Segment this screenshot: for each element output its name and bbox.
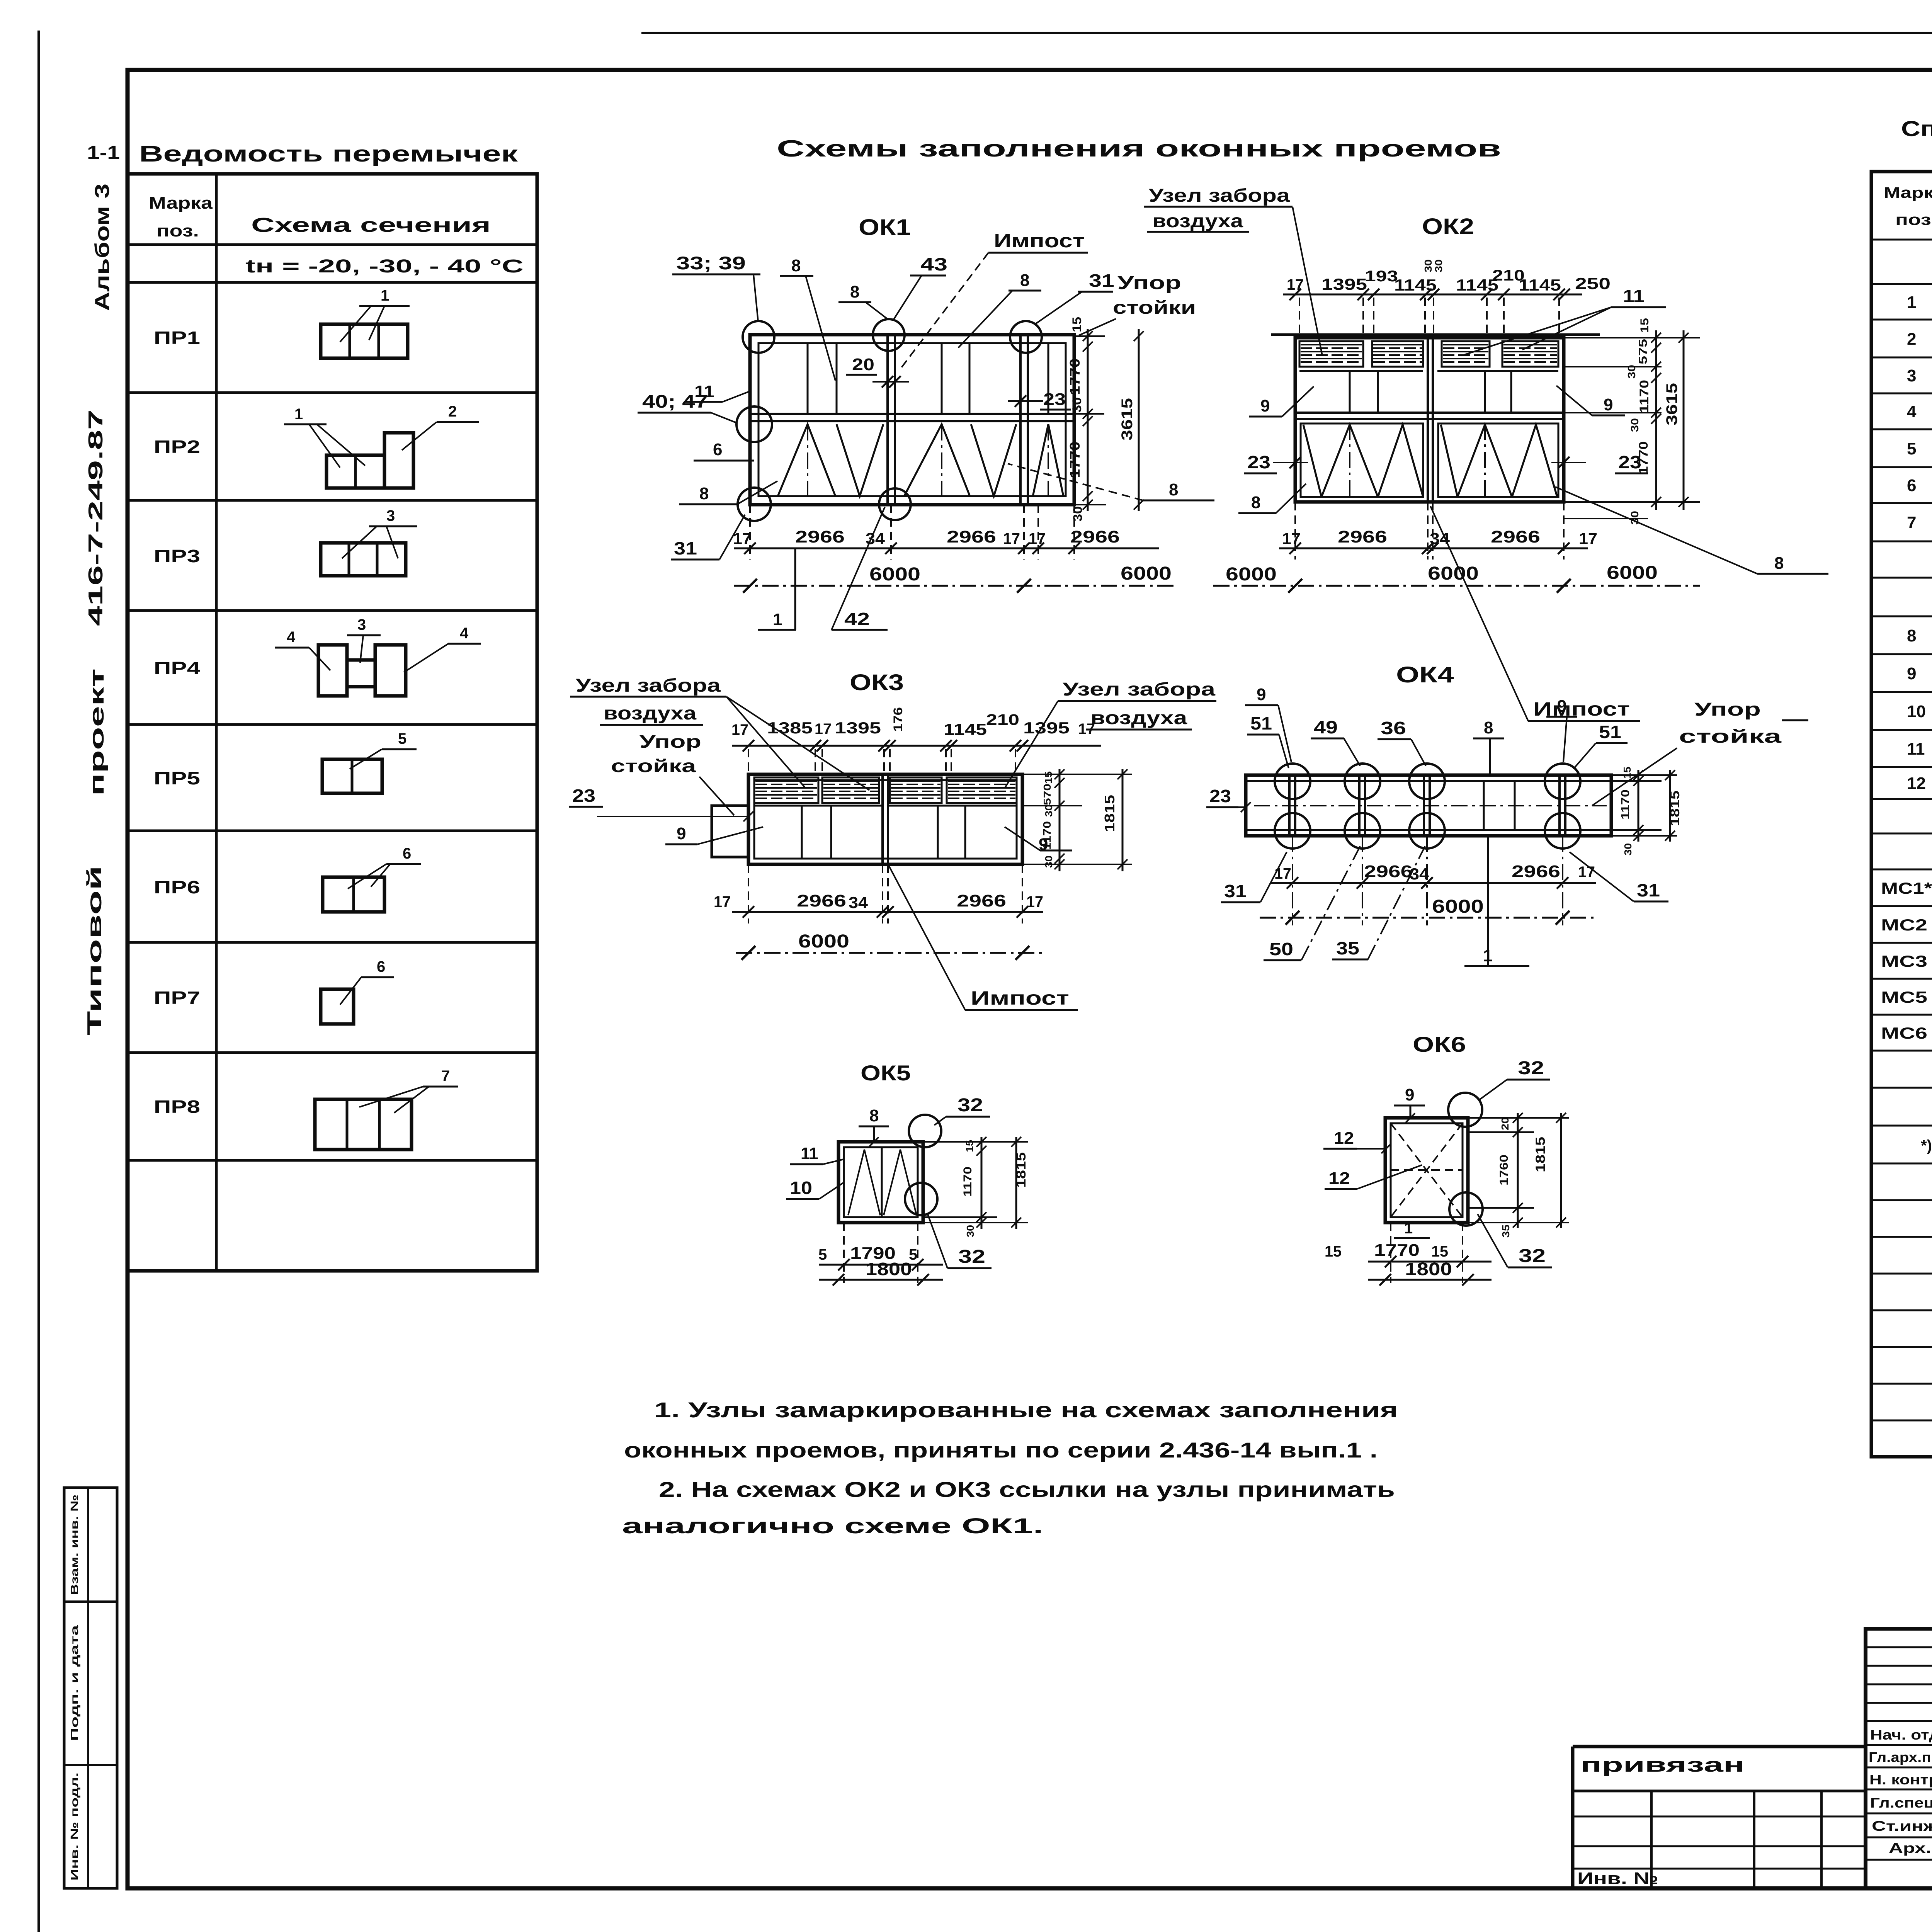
OK5 window outer frame bbox=[838, 1142, 923, 1223]
svg-text:Арх.: Арх. bbox=[1889, 1840, 1931, 1856]
OK6 node circle top bbox=[1448, 1093, 1482, 1127]
OK5 casement symbols bbox=[848, 1150, 880, 1215]
svg-text:30: 30 bbox=[1043, 855, 1054, 868]
OK5 right extension lines bbox=[923, 1141, 1028, 1143]
OK1 lower pane axis lines bbox=[807, 424, 808, 496]
svg-text:51: 51 bbox=[1599, 722, 1621, 742]
title block staff row lines bbox=[1866, 1720, 1932, 1722]
svg-text:17: 17 bbox=[1274, 865, 1291, 882]
margin stamp boxes bbox=[64, 1488, 117, 1888]
OK2 top dim extension lines bbox=[1299, 298, 1300, 335]
PR5 section scheme bbox=[322, 759, 382, 793]
svg-text:МС6: МС6 bbox=[1881, 1024, 1927, 1042]
svg-text:49: 49 bbox=[1314, 717, 1338, 737]
OK2 top dim line bbox=[1283, 294, 1582, 296]
OK5 right dim line A bbox=[981, 1137, 983, 1229]
OK2 rail under grills bbox=[1299, 370, 1423, 372]
svg-text:1: 1 bbox=[1483, 946, 1492, 965]
svg-text:МС1*): МС1*) bbox=[1881, 879, 1932, 897]
svg-text:8: 8 bbox=[1020, 271, 1029, 290]
svg-text:поз.: поз. bbox=[156, 221, 199, 240]
svg-text:1170: 1170 bbox=[1041, 821, 1053, 850]
svg-text:30: 30 bbox=[1070, 397, 1084, 413]
svg-text:6000: 6000 bbox=[1226, 564, 1277, 585]
OK2 lower casement symbols panel2 bbox=[1441, 425, 1458, 497]
svg-text:стойки: стойки bbox=[1113, 298, 1196, 318]
OK3 air intake hatched panel 4 bbox=[947, 777, 1017, 803]
svg-text:1170: 1170 bbox=[1619, 789, 1632, 820]
svg-text:30: 30 bbox=[1629, 418, 1641, 432]
svg-text:МС3: МС3 bbox=[1881, 952, 1927, 970]
svg-text:2966: 2966 bbox=[1364, 862, 1413, 881]
OK4 position ref 1 bbox=[1487, 836, 1489, 966]
svg-text:воздуха: воздуха bbox=[604, 703, 696, 724]
OK2 window outer frame bbox=[1295, 338, 1564, 502]
OK4 right dim line B 1815 bbox=[1669, 770, 1671, 842]
svg-text:3615: 3615 bbox=[1119, 398, 1136, 440]
svg-text:250: 250 bbox=[1575, 274, 1611, 293]
OK3 rail under grills bbox=[754, 805, 883, 807]
svg-text:17: 17 bbox=[714, 893, 731, 911]
svg-text:1: 1 bbox=[381, 287, 389, 304]
svg-text:32: 32 bbox=[1518, 1058, 1544, 1078]
svg-text:3: 3 bbox=[1907, 366, 1916, 385]
OK2 lower casement symbols panel1 bbox=[1303, 425, 1321, 497]
OK1 node circle top-mid bbox=[873, 319, 905, 351]
svg-text:2966: 2966 bbox=[947, 527, 996, 546]
OK1 upper pane verticals bbox=[807, 343, 809, 414]
svg-text:1815: 1815 bbox=[1014, 1152, 1029, 1188]
svg-text:Гл.спец.: Гл.спец. bbox=[1870, 1795, 1932, 1811]
svg-text:210: 210 bbox=[986, 711, 1019, 728]
svg-text:1170: 1170 bbox=[961, 1167, 974, 1197]
svg-text:ОК4: ОК4 bbox=[1396, 662, 1454, 687]
OK5 right dim line B 1815 bbox=[1015, 1137, 1017, 1229]
svg-text:ОК3: ОК3 bbox=[850, 670, 904, 695]
OK2 mid pane verticals bbox=[1349, 371, 1351, 413]
OK1 node circle mid-left bbox=[736, 406, 772, 442]
svg-text:Импост: Импост bbox=[971, 987, 1069, 1009]
OK3 air intake hatched panel 1 bbox=[754, 777, 818, 803]
svg-text:МС2: МС2 bbox=[1881, 916, 1927, 934]
OK3 top extension lines bbox=[748, 749, 749, 774]
OK1 bottom dim line bbox=[734, 548, 1159, 549]
svg-text:30: 30 bbox=[1433, 259, 1444, 272]
svg-text:51: 51 bbox=[1250, 713, 1272, 733]
svg-text:6: 6 bbox=[713, 440, 722, 459]
OK1 node circle bottom-left bbox=[738, 488, 771, 521]
svg-text:Упор: Упор bbox=[1694, 699, 1761, 720]
OK2 lintel line bbox=[1271, 333, 1600, 336]
svg-text:17: 17 bbox=[1003, 529, 1020, 548]
svg-text:15: 15 bbox=[1070, 317, 1084, 332]
svg-text:176: 176 bbox=[891, 707, 905, 732]
OK2 right extension lines bbox=[1564, 337, 1700, 338]
svg-text:Схема сечения: Схема сечения bbox=[251, 214, 491, 236]
svg-text:Типовой: Типовой bbox=[83, 866, 106, 1036]
svg-text:7: 7 bbox=[1907, 513, 1916, 532]
svg-text:12: 12 bbox=[1907, 774, 1926, 793]
OK4 grid dim line 6000 bbox=[1260, 917, 1596, 919]
OK6 bottom extension lines bbox=[1390, 1223, 1391, 1283]
svg-text:2: 2 bbox=[1907, 330, 1916, 349]
svg-text:6000: 6000 bbox=[1428, 563, 1479, 584]
svg-text:2966: 2966 bbox=[1512, 862, 1560, 881]
svg-text:1770: 1770 bbox=[1374, 1241, 1420, 1260]
OK3 lower pane verticals bbox=[801, 806, 803, 859]
OK2 inner frame lower bbox=[1301, 423, 1423, 497]
svg-text:8: 8 bbox=[850, 282, 859, 301]
OK3 bottom extension lines bbox=[748, 864, 749, 923]
svg-text:12: 12 bbox=[1328, 1169, 1350, 1188]
svg-text:ПР1: ПР1 bbox=[154, 328, 200, 348]
svg-text:ПР3: ПР3 bbox=[154, 546, 200, 566]
OK4 right dim line A bbox=[1638, 770, 1639, 842]
svg-text:3615: 3615 bbox=[1663, 383, 1680, 425]
svg-text:32: 32 bbox=[958, 1247, 985, 1267]
title block outer bbox=[1866, 1629, 1932, 1888]
svg-text:23: 23 bbox=[572, 786, 595, 806]
OK4 strip window inner lines bbox=[1246, 780, 1611, 782]
svg-text:ПР2: ПР2 bbox=[154, 437, 200, 457]
svg-text:1-1: 1-1 bbox=[87, 142, 120, 163]
PR4 section scheme bbox=[318, 645, 347, 696]
svg-text:17: 17 bbox=[815, 721, 832, 738]
OK1 lower casement symbols panel1 bbox=[778, 424, 835, 496]
svg-text:23: 23 bbox=[1209, 786, 1231, 806]
svg-text:32: 32 bbox=[1519, 1246, 1546, 1266]
svg-text:8: 8 bbox=[791, 256, 801, 275]
svg-text:6000: 6000 bbox=[1121, 563, 1172, 584]
svg-text:ПР4: ПР4 bbox=[154, 658, 201, 678]
svg-text:воздуха: воздуха bbox=[1090, 708, 1187, 728]
OK4 strip window outer bbox=[1246, 775, 1611, 836]
svg-text:1395: 1395 bbox=[835, 719, 881, 737]
svg-text:15: 15 bbox=[1431, 1243, 1448, 1260]
OK2 air intake hatched panel 4 bbox=[1502, 341, 1558, 367]
OK3 window outer frame bbox=[748, 774, 1022, 864]
svg-text:привязан: привязан bbox=[1580, 1754, 1745, 1776]
svg-text:1770: 1770 bbox=[1636, 441, 1650, 474]
svg-text:6: 6 bbox=[403, 845, 411, 862]
svg-text:6000: 6000 bbox=[1432, 896, 1484, 917]
svg-text:Инв. №: Инв. № bbox=[1577, 1869, 1658, 1888]
svg-text:1385: 1385 bbox=[767, 719, 813, 737]
svg-text:416-7-249.87: 416-7-249.87 bbox=[85, 410, 107, 626]
svg-text:1800: 1800 bbox=[866, 1259, 912, 1279]
svg-text:43: 43 bbox=[920, 254, 947, 274]
svg-text:1: 1 bbox=[1907, 293, 1916, 312]
svg-text:ПР6: ПР6 bbox=[154, 877, 200, 897]
OK4 window center axis bbox=[1254, 805, 1607, 806]
svg-text:Взам. инв. №: Взам. инв. № bbox=[68, 1495, 80, 1595]
svg-text:Марка,: Марка, bbox=[1884, 184, 1932, 201]
svg-text:аналогично схеме ОК1.: аналогично схеме ОК1. bbox=[622, 1514, 1043, 1538]
svg-text:11: 11 bbox=[801, 1144, 818, 1163]
svg-text:32: 32 bbox=[957, 1095, 983, 1116]
OK6 node circle bottom bbox=[1449, 1192, 1483, 1226]
svg-text:1770: 1770 bbox=[1067, 359, 1083, 395]
svg-text:17: 17 bbox=[1078, 721, 1095, 738]
OK2 air intake hatched panel 1 bbox=[1299, 341, 1363, 367]
svg-text:2966: 2966 bbox=[797, 891, 846, 910]
OK1 right extension lines bbox=[1074, 335, 1105, 337]
svg-text:2. На схемах ОК2 и ОК3 с: 2. На схемах ОК2 и ОК3 ссылки на узлы пр… bbox=[659, 1477, 1395, 1502]
OK6 pivot symbol diagonals bbox=[1391, 1123, 1463, 1217]
OK6 right extension lines bbox=[1468, 1117, 1569, 1119]
svg-text:Ст.инж: Ст.инж bbox=[1872, 1818, 1932, 1834]
svg-text:1760: 1760 bbox=[1498, 1155, 1510, 1185]
OK5 bottom extension lines bbox=[843, 1223, 845, 1283]
svg-text:31: 31 bbox=[674, 538, 697, 558]
svg-text:Импост: Импост bbox=[994, 230, 1085, 252]
svg-text:2966: 2966 bbox=[795, 527, 845, 546]
svg-text:3: 3 bbox=[386, 507, 395, 524]
OK3 grid dim line 6000 bbox=[736, 952, 1043, 954]
OK3 right dim line B 1815 bbox=[1122, 769, 1124, 871]
svg-text:Узел забора: Узел забора bbox=[576, 675, 721, 696]
svg-text:7: 7 bbox=[441, 1068, 450, 1085]
svg-text:30: 30 bbox=[1422, 259, 1434, 272]
svg-text:8: 8 bbox=[1169, 480, 1178, 499]
svg-text:30: 30 bbox=[1629, 511, 1641, 525]
OK3 right extension lines bbox=[1022, 774, 1132, 775]
svg-text:8: 8 bbox=[1484, 718, 1493, 737]
svg-text:ОК1: ОК1 bbox=[859, 215, 911, 240]
PR8 section scheme bbox=[315, 1099, 412, 1150]
svg-text:10: 10 bbox=[790, 1178, 812, 1198]
svg-text:8: 8 bbox=[1907, 626, 1916, 645]
svg-text:МС5: МС5 bbox=[1881, 988, 1927, 1006]
svg-text:9: 9 bbox=[1260, 396, 1270, 415]
svg-text:6000: 6000 bbox=[798, 931, 849, 952]
OK4 bottom dim line bbox=[1271, 882, 1596, 884]
svg-text:31: 31 bbox=[1637, 880, 1660, 900]
svg-text:23: 23 bbox=[1043, 390, 1066, 409]
OK3 window inner frame bbox=[754, 780, 1017, 859]
svg-text:17: 17 bbox=[731, 721, 748, 738]
svg-text:ОК6: ОК6 bbox=[1413, 1032, 1466, 1056]
svg-text:30: 30 bbox=[1622, 843, 1634, 855]
OK5 pane divider bbox=[881, 1147, 883, 1217]
svg-text:15: 15 bbox=[1621, 767, 1633, 779]
OK5 bottom dim line bbox=[819, 1264, 943, 1266]
PR2 section scheme bbox=[327, 455, 384, 488]
OK1 mullion 1 bbox=[886, 335, 889, 505]
svg-text:20: 20 bbox=[852, 355, 874, 374]
svg-text:23: 23 bbox=[1247, 452, 1270, 472]
PR1 section scheme bbox=[321, 324, 408, 358]
svg-text:1815: 1815 bbox=[1102, 795, 1117, 832]
svg-text:9: 9 bbox=[677, 824, 686, 843]
svg-text:1. Узлы замаркированные на: 1. Узлы замаркированные на схемах заполн… bbox=[654, 1398, 1398, 1422]
svg-text:Гл.арх.пр: Гл.арх.пр bbox=[1869, 1749, 1932, 1765]
svg-text:1815: 1815 bbox=[1668, 791, 1682, 826]
svg-text:Упор: Упор bbox=[639, 731, 701, 752]
PR3 section scheme bbox=[321, 543, 406, 576]
svg-text:1395: 1395 bbox=[1321, 275, 1367, 293]
svg-text:36: 36 bbox=[1381, 718, 1406, 738]
OK4 node circles bbox=[1275, 764, 1310, 799]
OK2 bottom dim line bbox=[1279, 548, 1588, 549]
svg-text:6: 6 bbox=[1907, 476, 1916, 495]
OK2 grid axis dim line bbox=[1213, 585, 1700, 587]
svg-text:34: 34 bbox=[1410, 865, 1429, 883]
svg-text:3: 3 bbox=[357, 616, 366, 633]
svg-text:Марка: Марка bbox=[149, 194, 213, 213]
OK2 right dim line A bbox=[1655, 330, 1657, 510]
svg-text:30: 30 bbox=[1043, 804, 1054, 817]
svg-text:9: 9 bbox=[1907, 664, 1916, 683]
OK6 bottom dim line bbox=[1368, 1261, 1492, 1263]
OK6 right dim line A bbox=[1517, 1113, 1519, 1228]
svg-text:15: 15 bbox=[1325, 1243, 1342, 1260]
OK3 bottom dim line bbox=[732, 911, 1043, 913]
OK2 right dim line B 3615 bbox=[1683, 330, 1685, 510]
OK1 position ref 1 bbox=[794, 548, 796, 630]
svg-text:6000: 6000 bbox=[1607, 563, 1658, 583]
OK3 top dim line bbox=[732, 745, 1101, 747]
OK6 window inner frame bbox=[1391, 1123, 1463, 1217]
paper edge top line bbox=[641, 32, 1932, 34]
privyazan grid bbox=[1573, 1790, 1866, 1793]
OK2 mid rail bbox=[1295, 412, 1564, 414]
OK6 window outer frame bbox=[1385, 1118, 1468, 1223]
OK1 right dim line B 3615 bbox=[1138, 329, 1140, 511]
svg-text:Схемы заполнения оконных пр: Схемы заполнения оконных проемов bbox=[777, 136, 1501, 162]
OK1 node circle top-left bbox=[743, 321, 774, 353]
OK1 grid axis dim line bbox=[734, 585, 1175, 587]
svg-text:15: 15 bbox=[1043, 771, 1054, 784]
svg-text:воздуха: воздуха bbox=[1152, 211, 1243, 231]
svg-text:1395: 1395 bbox=[1023, 719, 1070, 737]
svg-text:9: 9 bbox=[1604, 395, 1613, 414]
OK5 window inner frame bbox=[844, 1147, 918, 1217]
svg-text:15: 15 bbox=[1638, 318, 1651, 333]
OK2 air intake hatched panel 3 bbox=[1442, 341, 1490, 367]
svg-text:31: 31 bbox=[1089, 270, 1114, 291]
OK6 right dim line B 1815 bbox=[1560, 1113, 1562, 1228]
OK1 mid rail bbox=[750, 413, 1074, 415]
svg-text:1: 1 bbox=[294, 406, 303, 423]
svg-text:*): *) bbox=[1921, 1137, 1932, 1154]
OK4 mullions bbox=[1288, 775, 1291, 836]
OK4 bottom extension lines bbox=[1292, 836, 1293, 925]
lintel table grid bbox=[128, 174, 537, 1271]
svg-text:Узел забора: Узел забора bbox=[1063, 679, 1215, 700]
OK2 bottom extension lines bbox=[1294, 502, 1296, 560]
OK1 right dim line A bbox=[1087, 329, 1089, 511]
OK1 position ref 42 bbox=[832, 629, 888, 631]
svg-text:8: 8 bbox=[1774, 554, 1784, 573]
svg-text:Инв. № подл.: Инв. № подл. bbox=[68, 1772, 80, 1881]
svg-text:50: 50 bbox=[1269, 939, 1293, 959]
svg-text:31: 31 bbox=[1224, 881, 1247, 901]
svg-text:34: 34 bbox=[1430, 529, 1450, 548]
svg-text:40; 47: 40; 47 bbox=[642, 391, 708, 412]
svg-text:33; 39: 33; 39 bbox=[676, 253, 746, 273]
svg-text:9: 9 bbox=[1257, 685, 1266, 704]
svg-text:9: 9 bbox=[1405, 1085, 1414, 1104]
svg-text:193: 193 bbox=[1365, 268, 1398, 285]
svg-text:Ведомость перемычек: Ведомость перемычек bbox=[139, 141, 518, 167]
svg-text:4: 4 bbox=[460, 625, 469, 642]
spec table grid bbox=[1871, 172, 1932, 1457]
OK1 bottom extension lines bbox=[749, 505, 751, 560]
svg-text:Н. контр: Н. контр bbox=[1869, 1772, 1932, 1787]
svg-text:11: 11 bbox=[1907, 740, 1925, 759]
svg-text:1815: 1815 bbox=[1533, 1137, 1548, 1172]
svg-text:8: 8 bbox=[699, 484, 709, 503]
svg-text:35: 35 bbox=[1500, 1225, 1512, 1238]
svg-text:42: 42 bbox=[844, 609, 870, 629]
svg-text:1770: 1770 bbox=[1067, 442, 1083, 478]
svg-text:17: 17 bbox=[1026, 893, 1043, 911]
svg-text:поз.: поз. bbox=[1895, 211, 1932, 228]
PR6 section scheme bbox=[323, 877, 384, 912]
svg-text:15: 15 bbox=[964, 1140, 975, 1152]
svg-text:оконных проемов, приняты по: оконных проемов, приняты по серии 2.436-… bbox=[624, 1438, 1378, 1462]
OK5 node circle top bbox=[909, 1115, 941, 1147]
OK1 node circle top-right bbox=[1010, 321, 1042, 353]
OK3 upor stoika box bbox=[712, 806, 748, 857]
svg-text:4: 4 bbox=[287, 629, 296, 646]
svg-text:17: 17 bbox=[733, 529, 752, 548]
svg-text:30: 30 bbox=[1626, 365, 1638, 379]
svg-text:17: 17 bbox=[1578, 864, 1595, 881]
svg-text:4: 4 bbox=[1907, 402, 1917, 421]
OK2 air intake hatched panel 2 bbox=[1372, 341, 1423, 367]
svg-text:Упор: Упор bbox=[1117, 273, 1181, 293]
svg-text:tн = -20, -30, - 40 °С: tн = -20, -30, - 40 °С bbox=[245, 256, 524, 277]
svg-text:ПР5: ПР5 bbox=[154, 768, 200, 788]
svg-text:6: 6 bbox=[377, 958, 385, 975]
svg-text:575: 575 bbox=[1637, 339, 1650, 364]
svg-text:1145: 1145 bbox=[1519, 276, 1561, 294]
svg-text:Подп. и дата: Подп. и дата bbox=[68, 1625, 80, 1741]
privyazan block top cell bbox=[1573, 1745, 1866, 1748]
svg-text:30: 30 bbox=[964, 1225, 976, 1237]
svg-text:17: 17 bbox=[1579, 529, 1597, 548]
svg-text:проект: проект bbox=[86, 668, 108, 796]
svg-text:2966: 2966 bbox=[1491, 527, 1540, 546]
svg-text:Спецификация перемычек и за: Спецификация перемычек и заполнения bbox=[1901, 116, 1932, 141]
svg-text:30: 30 bbox=[1071, 506, 1085, 522]
OK2 central mullion bbox=[1427, 338, 1429, 502]
svg-text:ОК5: ОК5 bbox=[861, 1061, 911, 1085]
title block mini rows bbox=[1866, 1646, 1932, 1648]
svg-text:1170: 1170 bbox=[1637, 380, 1651, 413]
svg-text:17: 17 bbox=[1282, 529, 1301, 548]
OK1 lower casement symbols panel3 bbox=[1033, 424, 1063, 496]
paper edge left line bbox=[37, 31, 40, 1932]
svg-text:11: 11 bbox=[1623, 286, 1645, 306]
svg-text:1: 1 bbox=[1404, 1220, 1413, 1237]
svg-text:1: 1 bbox=[773, 610, 782, 629]
svg-text:5: 5 bbox=[398, 730, 406, 747]
OK3 air intake hatched panel 3 bbox=[890, 777, 942, 803]
OK1 mullion 2 bbox=[1019, 335, 1022, 505]
OK4 right extension lines bbox=[1611, 774, 1677, 776]
svg-text:5: 5 bbox=[818, 1246, 827, 1263]
OK5 node circle bottom bbox=[905, 1183, 937, 1215]
svg-text:570: 570 bbox=[1041, 784, 1053, 805]
svg-text:8: 8 bbox=[869, 1106, 879, 1125]
OK3 air intake hatched panel 2 bbox=[822, 777, 879, 803]
svg-text:9: 9 bbox=[1557, 697, 1566, 716]
svg-text:34: 34 bbox=[849, 893, 868, 912]
svg-text:1145: 1145 bbox=[944, 720, 987, 738]
